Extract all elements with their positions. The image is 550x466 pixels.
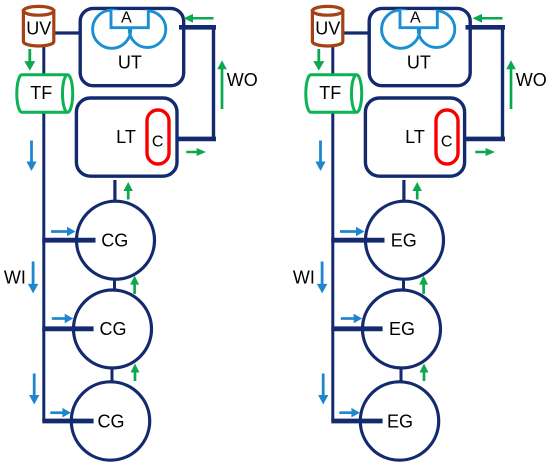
coil C (left) (red capsule) — [147, 110, 169, 164]
generator EG3 (right) (circle) — [360, 382, 438, 460]
wire: feed branch 2 (left) — [42, 326, 93, 331]
generator CG3 (left) (circle) — [71, 382, 149, 460]
arrow: return into UT (green, left) (right) — [473, 14, 503, 23]
svg-text:TF: TF — [319, 83, 341, 103]
svg-text:UT: UT — [407, 53, 431, 73]
arrow: UV to TF flow (green, down) (left) — [24, 49, 35, 71]
filter TF (right) (horizontal cylinder) — [306, 75, 362, 113]
wire: LT outlet pipe (right) — [464, 137, 505, 142]
tank LT (left) (rounded box) — [76, 98, 177, 176]
wire: UT top return pipe (left) — [179, 25, 216, 30]
wire: EG2 to EG3 pipe (right) — [400, 368, 403, 384]
arrow: vapor up EG2 to EG1 (green) (right) — [419, 276, 428, 294]
arrow: feed down segment 3 (blue) (right) — [318, 374, 328, 405]
svg-text:TF: TF — [30, 83, 52, 103]
svg-text:A: A — [121, 10, 132, 27]
arrow WI (right) (blue, down) — [317, 262, 328, 294]
svg-text:LT: LT — [405, 127, 425, 147]
wire: feed branch 3 (right) — [331, 419, 382, 424]
svg-text:UV: UV — [315, 19, 340, 39]
wire: feed branch 2 (right) — [331, 326, 382, 331]
tank LT (right) (rounded box) — [365, 98, 464, 176]
arrow: vapor up CG2 to CG1 (green) (left) — [130, 276, 139, 294]
wire: WO riser pipe (left) — [212, 27, 215, 139]
svg-text:A: A — [410, 10, 421, 27]
right system: evaporation generators EG — [293, 6, 547, 460]
tank UT (left) (rounded box) — [80, 8, 184, 85]
arrow: LT outlet flow (green, right) (right) — [475, 148, 495, 156]
arrow: feed into CG2 (blue, right) (left) — [52, 314, 73, 323]
svg-text:EG: EG — [387, 411, 413, 431]
generator EG1 (right) (circle) — [366, 201, 444, 279]
coil C (right) (red capsule) — [436, 110, 458, 164]
svg-text:UV: UV — [26, 19, 51, 39]
wire: CG2 to CG3 pipe (left) — [111, 368, 114, 384]
arrow: feed into EG2 (blue, right) (right) — [341, 314, 362, 323]
arrow: feed down segment 3 (blue) (left) — [29, 374, 39, 405]
arrow: feed into CG1 (blue, right) (left) — [51, 227, 76, 236]
svg-text:LT: LT — [116, 127, 136, 147]
arrow: vapor up CG3 to CG2 (green) (left) — [131, 364, 140, 382]
wire: feed branch 3 (left) — [42, 419, 93, 424]
wire: UV tank to UT tank pipe (right) — [343, 31, 371, 34]
tank UV (left) (cylinder) — [23, 6, 53, 46]
generator EG2 (right) (circle) — [363, 290, 441, 368]
wire: UT top return pipe (right) — [466, 25, 506, 30]
wire: feed main vertical pipe (left) — [42, 44, 45, 421]
svg-text:WO: WO — [516, 70, 547, 90]
svg-text:CG: CG — [101, 230, 128, 250]
arrow: vapor up into LT (green) (right) — [412, 182, 422, 200]
arrow WO (left) (green, up) — [217, 60, 227, 109]
wire: feed branch 1 (left) — [42, 238, 95, 243]
agitator A (left) (two blue lobes with stem) — [93, 10, 166, 48]
arrow: vapor up EG3 to EG2 (green) (right) — [420, 364, 429, 382]
arrow: vapor up into LT (green) (left) — [123, 182, 132, 200]
svg-text:C: C — [152, 133, 164, 150]
arrow: return into UT (green, left) (left) — [184, 14, 214, 23]
arrow: LT outlet flow (green, right) (left) — [186, 148, 206, 156]
wire: feed branch 1 (right) — [331, 238, 384, 243]
generator CG2 (left) (circle) — [74, 290, 152, 368]
arrow: UV to TF flow (green, down) (right) — [313, 49, 324, 71]
wire: feed main vertical pipe (right) — [331, 44, 334, 421]
arrow WI (left) (blue, down) — [28, 262, 39, 294]
wire: UV tank to UT tank pipe (left) — [54, 31, 82, 34]
svg-text:CG: CG — [100, 319, 127, 339]
wire: LT to EG1 pipe (right) — [402, 180, 405, 202]
tank UT (right) (rounded box) — [369, 8, 470, 85]
agitator A (right) (two blue lobes with stem) — [382, 10, 455, 48]
arrow: feed down segment 1 (blue) (right) — [315, 141, 325, 172]
svg-text:WI: WI — [293, 268, 315, 288]
svg-text:WO: WO — [227, 70, 258, 90]
wire: WO riser pipe (right) — [501, 27, 504, 139]
filter TF (left) (horizontal cylinder) — [17, 75, 73, 113]
arrow: feed into CG3 (blue, right) (left) — [50, 408, 71, 418]
generator CG1 (left) (circle) — [77, 201, 155, 279]
svg-text:UT: UT — [118, 53, 142, 73]
svg-text:CG: CG — [98, 411, 125, 431]
svg-text:EG: EG — [391, 230, 417, 250]
wire: LT outlet pipe (left) — [176, 137, 216, 142]
arrow: feed down segment 1 (blue) (left) — [26, 141, 36, 172]
svg-text:EG: EG — [389, 319, 415, 339]
svg-text:C: C — [441, 133, 453, 150]
wire: EG1 to EG2 pipe (right) — [402, 278, 405, 291]
tank UV (right) (cylinder) — [312, 6, 342, 46]
arrow: feed into EG1 (blue, right) (right) — [340, 227, 365, 236]
arrow WO (right) (green, up) — [506, 60, 516, 109]
wire: CG1 to CG2 pipe (left) — [113, 278, 116, 291]
left system: crystallization generators CG — [4, 6, 258, 460]
svg-text:WI: WI — [4, 268, 26, 288]
arrow: feed into EG3 (blue, right) (right) — [339, 408, 360, 418]
wire: LT to CG1 pipe (left) — [113, 180, 116, 202]
